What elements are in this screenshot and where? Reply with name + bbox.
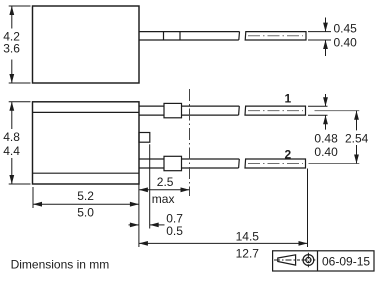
svg-text:1: 1 — [285, 91, 292, 105]
svg-text:max: max — [152, 192, 175, 206]
svg-text:2.5: 2.5 — [157, 175, 174, 189]
svg-text:06-09-15: 06-09-15 — [322, 255, 370, 269]
svg-text:0.48: 0.48 — [314, 131, 338, 145]
svg-text:5.2: 5.2 — [77, 189, 94, 203]
svg-text:5.0: 5.0 — [77, 205, 94, 219]
svg-text:0.40: 0.40 — [334, 35, 358, 49]
svg-text:Dimensions in mm: Dimensions in mm — [11, 257, 110, 271]
svg-text:12.7: 12.7 — [236, 247, 260, 261]
svg-text:14.5: 14.5 — [236, 230, 260, 244]
svg-text:0.5: 0.5 — [166, 224, 183, 238]
svg-text:4.8: 4.8 — [3, 130, 20, 144]
svg-text:4.4: 4.4 — [3, 144, 20, 158]
svg-text:2.54: 2.54 — [345, 131, 369, 145]
svg-text:3.6: 3.6 — [3, 41, 20, 55]
svg-text:0.40: 0.40 — [314, 145, 338, 159]
svg-text:2: 2 — [285, 148, 292, 162]
svg-text:0.45: 0.45 — [334, 21, 358, 35]
